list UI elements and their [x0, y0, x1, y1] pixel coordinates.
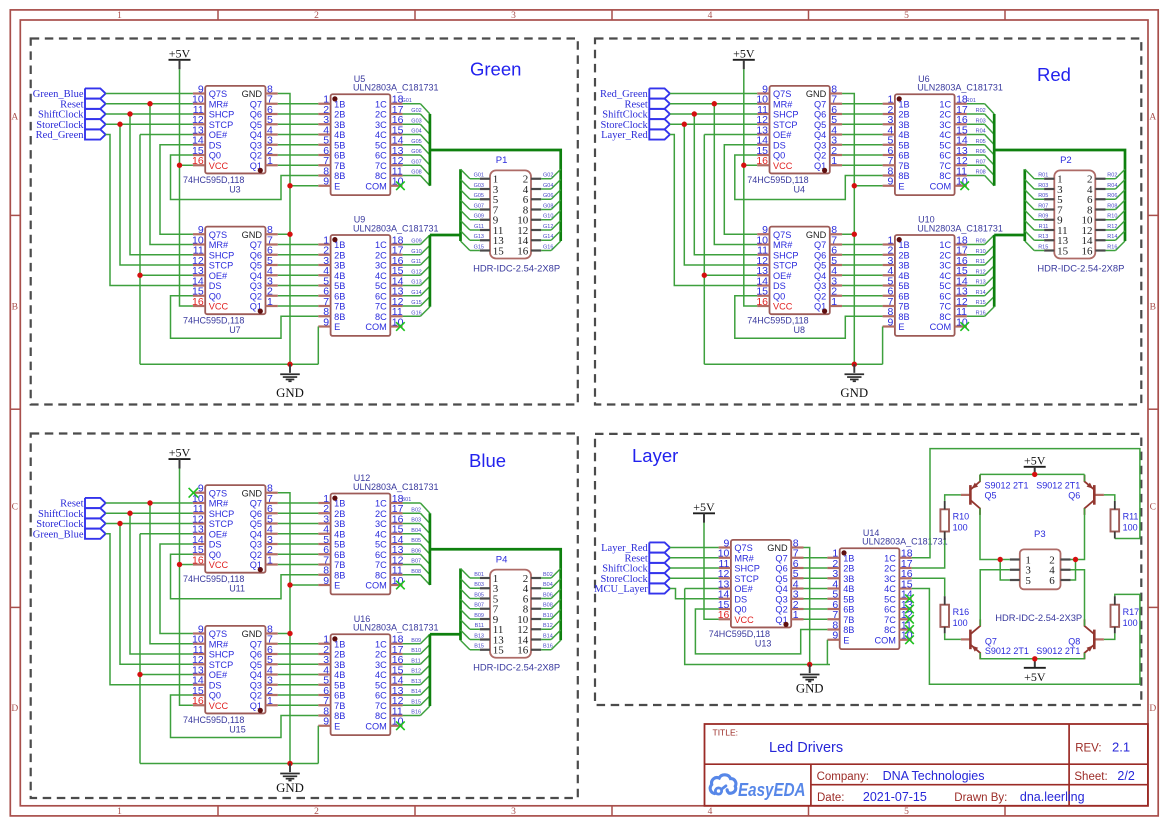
- svg-text:8B: 8B: [334, 711, 345, 721]
- svg-text:R15: R15: [1038, 244, 1048, 250]
- svg-text:G10: G10: [543, 214, 553, 220]
- wire U3 Q outputs to U5 inputs: [278, 104, 319, 166]
- wire U10 outputs R09-R16 with net labels: [967, 235, 994, 316]
- svg-text:Q6: Q6: [250, 509, 262, 519]
- wire +5V net: [177, 469, 193, 706]
- svg-text:Q5: Q5: [250, 120, 262, 130]
- wire net OE#: [702, 135, 758, 365]
- svg-text:4C: 4C: [375, 271, 387, 281]
- header P1 HDR-IDC-2.54-2X8P: [473, 155, 560, 273]
- svg-text:+5V: +5V: [1024, 670, 1046, 684]
- bus upper outputs: [430, 114, 561, 241]
- svg-text:16: 16: [517, 645, 529, 657]
- wire P3 pin4 to Q8 collector: [1071, 570, 1085, 626]
- svg-text:Q6: Q6: [250, 250, 262, 260]
- svg-text:DS: DS: [209, 540, 222, 550]
- wire Q5 base to R10: [945, 495, 961, 501]
- svg-text:8C: 8C: [939, 312, 951, 322]
- svg-text:GND: GND: [796, 682, 824, 696]
- svg-text:B16: B16: [411, 710, 421, 716]
- svg-text:+5V: +5V: [169, 46, 191, 60]
- header P3 HDR-IDC-2.54-2X3P: [995, 529, 1082, 623]
- svg-text:B01: B01: [402, 497, 412, 503]
- svg-text:B06: B06: [411, 548, 421, 554]
- wire net Layer_Red to DS of U8: [670, 135, 757, 286]
- svg-text:+5V: +5V: [733, 46, 755, 60]
- wire U14.3C to R16: [912, 578, 945, 596]
- svg-text:GND: GND: [242, 629, 263, 639]
- svg-text:R13: R13: [1038, 234, 1048, 240]
- svg-text:G14: G14: [543, 234, 553, 240]
- svg-text:Q6: Q6: [250, 650, 262, 660]
- svg-text:5B: 5B: [334, 281, 345, 291]
- svg-text:Q0: Q0: [209, 291, 221, 301]
- svg-text:B10: B10: [411, 648, 421, 654]
- svg-text:1C: 1C: [939, 240, 951, 250]
- svg-text:GND: GND: [767, 543, 788, 553]
- svg-text:B: B: [1150, 303, 1156, 313]
- svg-text:E: E: [334, 322, 340, 332]
- svg-text:SHCP: SHCP: [209, 509, 235, 519]
- svg-text:9: 9: [888, 316, 894, 328]
- svg-text:4C: 4C: [939, 271, 951, 281]
- svg-text:Q2: Q2: [250, 691, 262, 701]
- svg-text:STCP: STCP: [734, 574, 759, 584]
- bus lower outputs: [430, 169, 461, 307]
- svg-text:DNA Technologies: DNA Technologies: [883, 769, 985, 783]
- ground: [276, 764, 304, 796]
- svg-text:Q2: Q2: [250, 151, 262, 161]
- wire net ShiftClock: [670, 567, 719, 569]
- svg-text:COM: COM: [874, 635, 895, 645]
- svg-text:G08: G08: [411, 170, 421, 176]
- no-connect flag on COM pins: [960, 181, 969, 330]
- svg-text:2C: 2C: [884, 564, 896, 574]
- svg-text:OE#: OE#: [209, 130, 228, 140]
- svg-text:2B: 2B: [334, 509, 345, 519]
- wire header P2 right pins with net labels: [1106, 169, 1126, 250]
- input port StoreClock: [36, 518, 105, 530]
- svg-text:2C: 2C: [375, 110, 387, 120]
- svg-text:SHCP: SHCP: [209, 250, 235, 260]
- resistor R17 100: [1111, 605, 1140, 628]
- svg-text:3C: 3C: [939, 120, 951, 130]
- svg-text:S9012 2T1: S9012 2T1: [1036, 646, 1080, 656]
- svg-text:B15: B15: [411, 699, 421, 705]
- svg-text:G12: G12: [543, 224, 553, 230]
- svg-text:Date:: Date:: [817, 792, 845, 804]
- wire net StoreClock (StoreClock): [670, 122, 757, 265]
- svg-text:R03: R03: [1038, 183, 1048, 189]
- svg-text:Q4: Q4: [814, 130, 826, 140]
- svg-text:6B: 6B: [898, 151, 909, 161]
- svg-text:1: 1: [831, 155, 837, 167]
- svg-text:Q7S: Q7S: [209, 230, 227, 240]
- svg-text:1: 1: [267, 554, 273, 566]
- darlington array U9 ULN2803A: [318, 215, 438, 336]
- svg-text:B03: B03: [474, 582, 484, 588]
- svg-text:B12: B12: [411, 669, 421, 675]
- bus lower outputs: [994, 169, 1025, 307]
- svg-text:6C: 6C: [884, 605, 896, 615]
- svg-text:ULN2803A_C181731: ULN2803A_C181731: [353, 83, 439, 93]
- svg-text:SHCP: SHCP: [209, 110, 235, 120]
- svg-text:4B: 4B: [334, 271, 345, 281]
- svg-text:EasyEDA: EasyEDA: [738, 780, 806, 800]
- svg-text:HDR-IDC-2.54-2X3P: HDR-IDC-2.54-2X3P: [995, 612, 1082, 623]
- shift register U8 74HC595D: [747, 224, 842, 335]
- svg-text:16: 16: [718, 609, 730, 621]
- svg-text:Q6: Q6: [814, 110, 826, 120]
- no-connect flag on COM pins: [396, 181, 405, 330]
- svg-text:R13: R13: [976, 280, 986, 286]
- svg-text:G05: G05: [411, 139, 421, 145]
- svg-text:2C: 2C: [939, 110, 951, 120]
- wire U8 Q outputs to U10 inputs: [842, 245, 883, 307]
- svg-text:HDR-IDC-2.54-2X8P: HDR-IDC-2.54-2X8P: [473, 662, 560, 673]
- svg-text:STCP: STCP: [209, 660, 234, 670]
- svg-text:3C: 3C: [939, 261, 951, 271]
- svg-text:B06: B06: [543, 592, 553, 598]
- svg-text:Q5: Q5: [250, 261, 262, 271]
- wire +5V to U13.VCC: [704, 523, 719, 619]
- svg-text:6C: 6C: [375, 691, 387, 701]
- svg-text:MCU_Layer: MCU_Layer: [594, 584, 648, 595]
- svg-text:Q7: Q7: [250, 639, 262, 649]
- +5V power flag: [169, 446, 191, 469]
- wire U14.1C to R11 (Q6 base): [912, 449, 1140, 558]
- svg-text:6C: 6C: [375, 151, 387, 161]
- svg-text:Q5: Q5: [250, 519, 262, 529]
- wire net Red_Green to DS of U7: [106, 135, 193, 286]
- svg-text:3C: 3C: [884, 574, 896, 584]
- svg-text:Green_Blue: Green_Blue: [33, 529, 84, 540]
- svg-text:Q3: Q3: [814, 281, 826, 291]
- svg-text:B05: B05: [411, 538, 421, 544]
- svg-text:Q7S: Q7S: [773, 230, 791, 240]
- svg-text:2B: 2B: [334, 250, 345, 260]
- svg-text:9: 9: [323, 316, 329, 328]
- resistor lead R10: [944, 501, 946, 540]
- wire P3 pin3 to Q7 collector: [980, 570, 1010, 626]
- svg-text:5C: 5C: [375, 281, 387, 291]
- svg-text:B04: B04: [543, 582, 553, 588]
- wire header P1 right pins with net labels: [541, 169, 561, 250]
- ground: [796, 665, 824, 696]
- svg-text:4B: 4B: [334, 130, 345, 140]
- svg-text:1: 1: [267, 155, 273, 167]
- svg-text:8B: 8B: [843, 625, 854, 635]
- svg-text:OE#: OE#: [209, 271, 228, 281]
- svg-text:SHCP: SHCP: [209, 650, 235, 660]
- svg-text:1: 1: [267, 695, 273, 707]
- section Red dashed border: [595, 39, 1141, 405]
- input port ShiftClock: [602, 563, 670, 575]
- wire Q6 base to R11: [1104, 495, 1115, 501]
- svg-text:R09: R09: [1038, 214, 1048, 220]
- svg-text:Q4: Q4: [814, 271, 826, 281]
- svg-text:5C: 5C: [939, 140, 951, 150]
- svg-text:Q7: Q7: [250, 499, 262, 509]
- svg-text:COM: COM: [365, 181, 386, 191]
- svg-text:E: E: [334, 581, 340, 591]
- svg-text:6: 6: [1049, 575, 1055, 587]
- wire net OE#: [137, 534, 193, 764]
- svg-text:GND: GND: [242, 89, 263, 99]
- svg-text:5B: 5B: [898, 281, 909, 291]
- svg-text:R03: R03: [976, 118, 986, 124]
- svg-text:6B: 6B: [334, 291, 345, 301]
- svg-text:8C: 8C: [884, 625, 896, 635]
- svg-text:Q4: Q4: [250, 529, 262, 539]
- svg-text:SHCP: SHCP: [734, 564, 760, 574]
- svg-text:COM: COM: [365, 721, 386, 731]
- title block texts: [713, 727, 1135, 804]
- svg-text:ULN2803A_C181731: ULN2803A_C181731: [353, 223, 439, 233]
- svg-text:G09: G09: [411, 239, 421, 245]
- wire Q5 collector to P3 pin1/pin5: [980, 508, 1010, 580]
- wire U14.2C to R10: [912, 540, 945, 568]
- svg-text:R08: R08: [1107, 203, 1117, 209]
- wire U11 Q outputs to U12 inputs: [278, 503, 319, 565]
- svg-text:2: 2: [314, 807, 319, 817]
- svg-text:MR#: MR#: [209, 499, 229, 509]
- svg-text:U8: U8: [794, 325, 806, 335]
- svg-text:OE#: OE#: [209, 529, 228, 539]
- svg-text:B08: B08: [543, 603, 553, 609]
- +5V power flag: [733, 46, 755, 69]
- shift register U4 74HC595D: [747, 83, 842, 194]
- svg-text:9: 9: [323, 716, 329, 728]
- input port Reset: [624, 553, 669, 565]
- svg-text:16: 16: [192, 695, 204, 707]
- svg-text:15: 15: [493, 245, 505, 257]
- svg-text:1C: 1C: [375, 639, 387, 649]
- svg-text:R02: R02: [1107, 173, 1117, 179]
- svg-text:5B: 5B: [334, 140, 345, 150]
- wire U8.Q7S to U4.DS: [724, 145, 757, 235]
- wire header P4 right pins with net labels: [541, 569, 561, 650]
- svg-text:R14: R14: [976, 290, 986, 296]
- svg-text:5B: 5B: [843, 594, 854, 604]
- svg-text:5C: 5C: [884, 594, 896, 604]
- no-connect flag on Q7S: [189, 488, 199, 498]
- svg-text:U15: U15: [229, 724, 246, 734]
- wire U13.OE# to GND rail: [685, 589, 830, 665]
- shift register U3 74HC595D: [183, 83, 278, 194]
- svg-text:5B: 5B: [898, 140, 909, 150]
- svg-text:Red: Red: [1037, 64, 1071, 85]
- svg-text:R16: R16: [953, 607, 970, 617]
- svg-text:3B: 3B: [334, 519, 345, 529]
- svg-text:3C: 3C: [375, 120, 387, 130]
- svg-text:Q4: Q4: [250, 670, 262, 680]
- svg-text:R05: R05: [1038, 193, 1048, 199]
- svg-text:6C: 6C: [939, 291, 951, 301]
- svg-text:Q7S: Q7S: [209, 89, 227, 99]
- svg-text:16: 16: [756, 296, 768, 308]
- svg-text:7B: 7B: [898, 302, 909, 312]
- svg-text:P4: P4: [496, 554, 508, 565]
- svg-text:Q3: Q3: [775, 594, 787, 604]
- resistor R16 100: [940, 605, 969, 628]
- svg-text:VCC: VCC: [209, 161, 229, 171]
- svg-text:B02: B02: [411, 507, 421, 513]
- svg-text:6B: 6B: [334, 151, 345, 161]
- svg-text:VCC: VCC: [773, 161, 793, 171]
- svg-text:G15: G15: [474, 244, 484, 250]
- svg-text:2B: 2B: [334, 650, 345, 660]
- svg-text:Layer: Layer: [632, 445, 678, 466]
- svg-text:Q3: Q3: [250, 680, 262, 690]
- resistor lead R11: [1114, 501, 1116, 539]
- svg-text:8B: 8B: [334, 171, 345, 181]
- input port MCU_Layer: [594, 583, 670, 595]
- svg-text:R06: R06: [976, 149, 986, 155]
- svg-text:10: 10: [392, 316, 404, 328]
- svg-text:5C: 5C: [375, 680, 387, 690]
- svg-text:3: 3: [511, 11, 516, 21]
- svg-text:ULN2803A_C181731: ULN2803A_C181731: [353, 482, 439, 492]
- svg-text:7B: 7B: [334, 701, 345, 711]
- svg-text:S9012 2T1: S9012 2T1: [985, 481, 1029, 491]
- svg-text:B03: B03: [411, 518, 421, 524]
- svg-text:B02: B02: [543, 572, 553, 578]
- svg-text:+5V: +5V: [693, 500, 715, 514]
- svg-text:100: 100: [1123, 618, 1138, 628]
- wire net ShiftClock (ShiftClock): [106, 111, 193, 254]
- darlington array U12 ULN2803A: [318, 473, 438, 594]
- frame column numbers top: [117, 11, 909, 21]
- wire header P2 left pins with net labels: [1025, 169, 1049, 250]
- svg-text:8C: 8C: [375, 570, 387, 580]
- svg-text:Q5: Q5: [985, 491, 997, 501]
- wire U6 outputs R01-R08 with net labels: [966, 98, 994, 186]
- svg-text:6B: 6B: [843, 605, 854, 615]
- svg-text:3C: 3C: [375, 261, 387, 271]
- svg-text:Q6: Q6: [250, 110, 262, 120]
- svg-text:STCP: STCP: [209, 120, 234, 130]
- svg-text:G11: G11: [474, 224, 484, 230]
- svg-text:10: 10: [392, 176, 404, 188]
- svg-text:SHCP: SHCP: [773, 250, 799, 260]
- svg-text:B16: B16: [543, 644, 553, 650]
- wire U12 outputs B01-B08 with net labels: [402, 497, 430, 585]
- svg-text:B14: B14: [411, 689, 421, 695]
- svg-text:ULN2803A_C181731: ULN2803A_C181731: [353, 623, 439, 633]
- svg-text:9: 9: [832, 630, 838, 642]
- svg-text:U11: U11: [229, 584, 245, 594]
- svg-text:GND: GND: [276, 386, 304, 400]
- wire +5V net: [177, 69, 193, 306]
- svg-text:B08: B08: [411, 569, 421, 575]
- svg-text:G10: G10: [411, 249, 421, 255]
- svg-text:G03: G03: [474, 183, 484, 189]
- bus lower outputs: [430, 569, 461, 707]
- svg-text:Q2: Q2: [250, 550, 262, 560]
- ground: [840, 364, 868, 400]
- svg-text:HDR-IDC-2.54-2X8P: HDR-IDC-2.54-2X8P: [473, 262, 560, 273]
- svg-text:OE#: OE#: [209, 670, 228, 680]
- svg-text:6C: 6C: [375, 291, 387, 301]
- input port Reset: [624, 99, 669, 111]
- svg-text:COM: COM: [930, 181, 951, 191]
- svg-text:7B: 7B: [843, 615, 854, 625]
- svg-text:16: 16: [517, 245, 529, 257]
- svg-text:DS: DS: [209, 680, 222, 690]
- svg-text:OE#: OE#: [734, 584, 753, 594]
- title block: [705, 724, 1148, 806]
- svg-text:Q6: Q6: [775, 564, 787, 574]
- svg-text:R01: R01: [966, 98, 976, 104]
- shift register U11 74HC595D: [183, 483, 278, 594]
- svg-text:B12: B12: [543, 623, 553, 629]
- svg-text:Q3: Q3: [250, 140, 262, 150]
- wire net Reset (Reset): [670, 101, 757, 244]
- wire U7.Q0 to U9.8B: [171, 296, 319, 339]
- svg-text:R15: R15: [976, 300, 986, 306]
- svg-text:G03: G03: [411, 118, 421, 124]
- svg-text:dna.leerling: dna.leerling: [1020, 790, 1085, 804]
- wire U7 Q outputs to U9 inputs: [278, 245, 319, 307]
- svg-text:8C: 8C: [375, 312, 387, 322]
- svg-text:MR#: MR#: [773, 99, 793, 109]
- svg-text:D: D: [11, 704, 18, 714]
- input port Layer_Red: [601, 129, 670, 141]
- svg-text:C: C: [1150, 503, 1156, 513]
- svg-text:6B: 6B: [334, 691, 345, 701]
- section Green dashed border: [31, 39, 578, 405]
- svg-text:E: E: [334, 181, 340, 191]
- wire net Reset (Reset): [106, 101, 193, 244]
- svg-text:1: 1: [117, 11, 122, 21]
- wire U4.Q0 to U6.8B: [735, 155, 883, 200]
- svg-text:R12: R12: [1107, 224, 1117, 230]
- svg-text:3: 3: [511, 807, 516, 817]
- svg-text:DS: DS: [734, 594, 747, 604]
- wire U15.Q0 to U16.8B: [171, 695, 319, 738]
- svg-text:16: 16: [192, 554, 204, 566]
- svg-text:7B: 7B: [334, 302, 345, 312]
- svg-text:5: 5: [1025, 575, 1031, 587]
- svg-text:Q7S: Q7S: [773, 89, 791, 99]
- svg-text:E: E: [898, 322, 904, 332]
- svg-text:Q0: Q0: [734, 605, 746, 615]
- wire Q6 collector to P3 pin2/pin6: [1071, 508, 1085, 580]
- svg-text:B07: B07: [474, 603, 484, 609]
- svg-text:7C: 7C: [884, 615, 896, 625]
- wire net StoreClock (StoreClock): [106, 122, 193, 265]
- svg-text:5C: 5C: [939, 281, 951, 291]
- wire U15 Q outputs to U16 inputs: [278, 644, 319, 706]
- svg-text:Q7: Q7: [775, 553, 787, 563]
- svg-text:4: 4: [708, 807, 713, 817]
- svg-text:MR#: MR#: [209, 99, 229, 109]
- svg-text:4B: 4B: [898, 130, 909, 140]
- svg-text:Q7: Q7: [814, 240, 826, 250]
- svg-text:MR#: MR#: [734, 553, 754, 563]
- svg-text:2B: 2B: [898, 110, 909, 120]
- svg-text:U7: U7: [229, 325, 241, 335]
- wire net OE#: [137, 135, 193, 365]
- resistor R11 100: [1111, 509, 1139, 532]
- svg-text:2: 2: [314, 11, 319, 21]
- svg-text:Q3: Q3: [814, 140, 826, 150]
- svg-text:10: 10: [392, 575, 404, 587]
- svg-text:16: 16: [192, 155, 204, 167]
- wire U8.Q0 to U10.8B: [735, 296, 883, 339]
- svg-text:Q6: Q6: [1068, 491, 1080, 501]
